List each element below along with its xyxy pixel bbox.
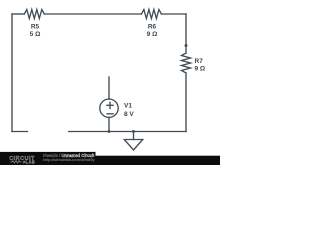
wire right vertical lower xyxy=(185,73,187,132)
ground stem xyxy=(133,131,135,139)
svg-text:R5: R5 xyxy=(31,24,40,31)
node junction dot above R7 xyxy=(185,44,188,47)
svg-text:http://circuitlab.com/c/hsf3y: http://circuitlab.com/c/hsf3y xyxy=(43,157,96,162)
wire V1 top lead xyxy=(108,77,110,99)
V1 minus sign xyxy=(107,113,113,115)
voltage source V1 body xyxy=(100,99,118,117)
CircuitLab logo squiggle xyxy=(11,161,22,163)
wire V1 bottom lead xyxy=(108,117,110,131)
ground triangle xyxy=(124,140,142,151)
wire top middle xyxy=(44,13,141,15)
svg-text:V1: V1 xyxy=(124,103,132,110)
wire left vertical xyxy=(11,14,13,132)
node junction dot V1 bottom xyxy=(108,130,111,133)
wire top-right lead xyxy=(161,13,186,15)
resistor R5 xyxy=(24,10,44,19)
wire bottom-left stub xyxy=(12,131,28,133)
svg-text:R7: R7 xyxy=(195,58,204,65)
resistor R6 xyxy=(141,10,161,19)
wire top-left horizontal lead xyxy=(12,13,24,15)
svg-text:≠LAB: ≠LAB xyxy=(23,160,35,165)
V1 plus sign xyxy=(107,104,113,106)
wire right vertical upper xyxy=(185,14,187,53)
svg-text:8 V: 8 V xyxy=(124,111,134,118)
node junction dot ground xyxy=(132,130,135,133)
resistor R7 xyxy=(182,53,191,73)
svg-text:9 Ω: 9 Ω xyxy=(195,65,206,72)
svg-text:5 Ω: 5 Ω xyxy=(30,31,41,38)
wire bottom right section xyxy=(69,131,186,133)
watermark tall block left xyxy=(0,152,96,165)
svg-text:R6: R6 xyxy=(148,24,157,31)
svg-text:9 Ω: 9 Ω xyxy=(147,31,158,38)
watermark bar full width xyxy=(0,156,220,165)
